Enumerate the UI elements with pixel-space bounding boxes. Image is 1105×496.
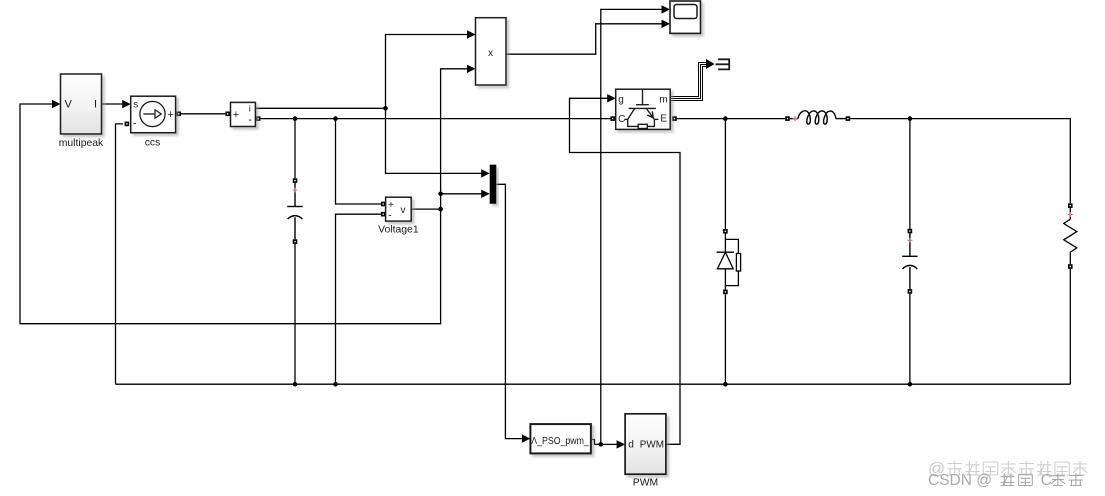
wire current signal up to product input 1 (386, 35, 468, 109)
svg-text:+: + (388, 200, 394, 211)
svg-text:-: - (388, 210, 391, 221)
svg-text:m: m (659, 95, 667, 106)
block Voltage1 measurement (378, 197, 419, 235)
wire ground rail (116, 383, 1071, 385)
port output capacitor bottom (908, 289, 913, 294)
wire PSO_pwm output to PWM d input (592, 440, 617, 445)
node rail input-cap junction (293, 116, 298, 121)
svg-text:Voltage1: Voltage1 (378, 225, 419, 236)
port IGBT C (610, 116, 615, 121)
arrow into scope input 1 (662, 5, 671, 13)
port output capacitor top (908, 229, 913, 234)
wire multipeak I output to ccs s input (102, 103, 123, 105)
output capacitor Cout (902, 233, 917, 289)
wire ccs minus to ground rail (116, 124, 124, 384)
port measurement minus (256, 116, 261, 121)
wire voltage line vertical to product input 2 (441, 69, 468, 209)
wire output capacitor bottom branch (909, 294, 911, 385)
wire input capacitor bottom branch (294, 244, 296, 384)
arrow into mux input 1 (481, 169, 490, 177)
port Voltage1 plus (381, 202, 386, 207)
svg-text:CSDN @: CSDN @ (928, 472, 992, 489)
node current-signal junction (383, 106, 388, 111)
wire main rail from measurement minus to IGBT C (261, 118, 611, 120)
svg-text:C: C (618, 114, 625, 125)
wire resistor bottom to ground rail (1069, 269, 1071, 384)
wire product output to scope input 2 (506, 24, 662, 54)
wire Voltage1 plus to main rail (336, 119, 381, 204)
svg-text:Λ_PSO_pwm_: Λ_PSO_pwm_ (531, 435, 589, 447)
wire input capacitor top branch (294, 119, 296, 179)
arrow into multipeak V (52, 100, 61, 108)
wire ccs plus to current measurement plus (181, 113, 225, 115)
svg-text:+: + (233, 109, 239, 121)
arrow into PWM d input (617, 440, 626, 448)
wire PSO output riser to scope input 1 (601, 9, 662, 444)
port measurement plus (225, 112, 230, 117)
svg-text:-: - (133, 118, 137, 130)
svg-text:V: V (65, 99, 73, 111)
arrow into terminator (706, 59, 715, 69)
wire inductor right to load corner down to resistor (850, 119, 1070, 204)
block mux (490, 165, 497, 204)
svg-text:PWM: PWM (640, 439, 664, 450)
input capacitor Cin (287, 183, 302, 239)
port input capacitor top (293, 178, 298, 183)
red polarity marks (293, 116, 1073, 243)
block PWM generator (625, 414, 666, 489)
port resistor top (1068, 203, 1073, 208)
node ground Voltage1-minus junction (333, 382, 338, 387)
wire Voltage1 minus to ground rail (336, 214, 381, 384)
node ground diode junction (723, 382, 728, 387)
block product x (476, 18, 507, 85)
svg-text:multipeak: multipeak (59, 138, 104, 149)
port Voltage1 minus (381, 212, 386, 217)
node ground output-cap junction (908, 382, 913, 387)
wire V feedback from Voltage1 to multipeak V input (20, 104, 441, 324)
watermark line 1: @ rare-earth juejin community (CJK drawn as vector strokes) (928, 459, 1087, 478)
port input capacitor bottom (293, 239, 298, 244)
wire mux output to PSO_pwm input (496, 184, 522, 438)
node ground input-cap junction (293, 382, 298, 387)
IGBT arrow on emitter diagonal (647, 111, 653, 117)
svg-text:v: v (401, 205, 406, 216)
wire Voltage1 output to junction (411, 208, 440, 210)
port IGBT E (672, 116, 677, 121)
port ccs minus (125, 122, 130, 127)
svg-text:+: + (167, 109, 173, 121)
terminator on m output (716, 59, 730, 69)
node Voltage1 output junction (438, 207, 443, 212)
port inductor right (846, 116, 851, 121)
svg-text:s: s (133, 100, 138, 111)
wire output capacitor top branch (909, 119, 911, 229)
arrowheads on signal lines (52, 5, 715, 448)
block PSO_pwm MATLAB function (530, 424, 591, 453)
svg-text:g: g (618, 95, 624, 106)
port inductor left (785, 116, 790, 121)
port diode bottom (723, 290, 728, 295)
wire IGBT E to output network rail (677, 118, 785, 120)
arrow into scope input 2 (662, 20, 671, 28)
arrow into ccs s (122, 100, 131, 108)
node IGBT E diode junction (723, 116, 728, 121)
resistor R load (1064, 208, 1077, 264)
arrow into PSO_pwm input (522, 434, 531, 442)
block current measurement (231, 102, 256, 126)
node rail output-cap junction (908, 116, 913, 121)
wire diode branch bottom (724, 294, 726, 384)
svg-text:E: E (660, 114, 667, 125)
diode D with snubber (717, 234, 741, 290)
svg-text:ccs: ccs (145, 138, 161, 149)
svg-text:x: x (488, 48, 493, 59)
node rail Voltage1-plus junction (333, 116, 338, 121)
block IGBT (616, 89, 671, 129)
svg-text:d: d (628, 440, 634, 451)
port diode top (723, 229, 728, 234)
arrow into IGBT g (607, 94, 616, 102)
wire PWM output to IGBT g input (570, 98, 681, 444)
port ccs plus (176, 112, 181, 117)
node voltage to mux junction (438, 192, 443, 197)
svg-text:C: C (1041, 472, 1052, 489)
node PSO output scope junction (599, 442, 604, 447)
watermark line 2: CSDN @ wo ai C biancheng (928, 472, 1083, 489)
wire IGBT m triple line to terminator (671, 63, 707, 101)
wire current signal down to mux input 1 (386, 108, 482, 173)
block scope (670, 1, 701, 33)
port square centers (white pin holes) (126, 113, 1071, 293)
block ccs controlled current source (131, 96, 176, 148)
arrow into product input 2 (467, 65, 476, 73)
IGBT symbol interior (624, 89, 658, 128)
arrow into mux input 2 (481, 190, 490, 198)
svg-text:-: - (248, 114, 252, 126)
svg-text:I: I (94, 99, 97, 111)
wire current signal i to junction (255, 107, 385, 109)
svg-text:PWM: PWM (633, 478, 658, 489)
block multipeak (PV source subsystem) (59, 74, 104, 149)
arrow into product input 1 (467, 30, 476, 38)
wire diode branch top (724, 119, 726, 229)
inductor L (790, 111, 846, 124)
port resistor bottom (1068, 264, 1073, 269)
wire voltage junction to mux input 2 (441, 193, 482, 195)
port squares (physical connection ports) (125, 112, 1073, 295)
